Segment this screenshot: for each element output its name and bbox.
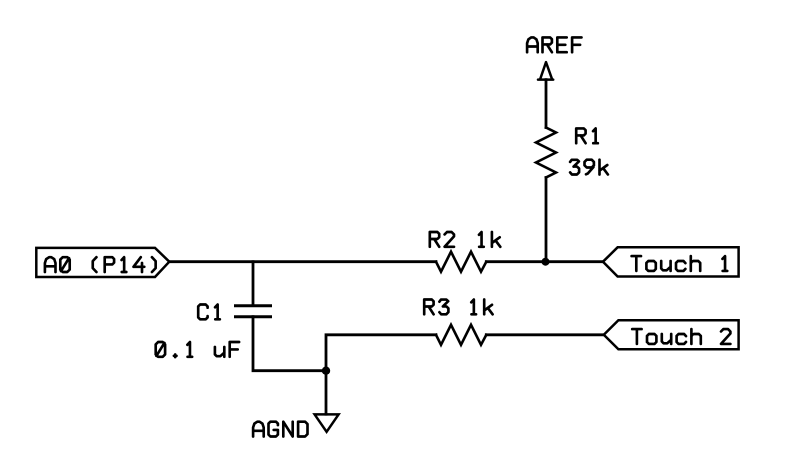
label AGND (253, 422, 307, 437)
flag A0 (P14) (36, 248, 169, 277)
label Touch 2 (632, 329, 730, 344)
resistor R3 1k (436, 325, 486, 345)
label 1k-R3 (471, 300, 492, 315)
resistor R2 1k (436, 252, 486, 272)
label R1 (576, 128, 598, 143)
flag Touch 2 (604, 320, 739, 349)
capacitor C1 (234, 306, 272, 317)
junction node B (322, 367, 330, 375)
wire AREF arrow to R1 (545, 80, 548, 128)
label 1k-R2 (479, 232, 500, 247)
label A0 (P14) (45, 257, 156, 272)
resistor R1 39k (536, 128, 556, 178)
wire node B up to R3 line (326, 335, 436, 371)
power flag arrow AREF (538, 62, 553, 79)
label Touch 1 (632, 256, 728, 271)
label 0.1 uF (156, 342, 239, 357)
label 39k (570, 160, 608, 175)
wire R2 to Touch 1 (486, 260, 603, 263)
flag Touch 1 (603, 247, 739, 276)
wire node A0 line to C1 (252, 262, 255, 305)
junction node A (542, 258, 550, 266)
ground AGND (315, 414, 339, 431)
label R3 (424, 300, 448, 315)
wire R3 to Touch 2 (486, 333, 604, 336)
wire C1 to corner and node B (253, 317, 326, 371)
wire R1 to node A (545, 178, 548, 262)
label C1 (198, 305, 220, 320)
wire node B to ground (325, 371, 328, 415)
label AREF (527, 37, 581, 52)
label R2 (430, 232, 454, 247)
wire A0 to R2 (169, 260, 436, 263)
